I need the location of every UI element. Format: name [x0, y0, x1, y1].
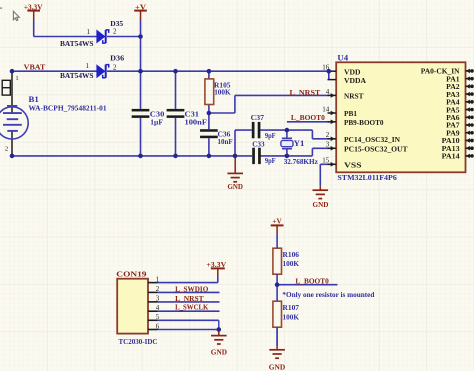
svg-text:D36: D36: [110, 54, 124, 63]
svg-text:PB1: PB1: [344, 109, 357, 118]
svg-text:STM32L011F4P6: STM32L011F4P6: [337, 173, 396, 182]
svg-text:1µF: 1µF: [150, 118, 163, 127]
svg-text:PB9-BOOT0: PB9-BOOT0: [344, 118, 384, 127]
svg-text:R106: R106: [283, 250, 300, 259]
svg-text:GND: GND: [269, 363, 286, 371]
svg-text:TC2030-IDC: TC2030-IDC: [119, 337, 158, 346]
svg-text:3: 3: [326, 141, 330, 149]
svg-text:10nF: 10nF: [218, 137, 233, 146]
svg-text:Y1: Y1: [294, 138, 305, 148]
svg-text:GND: GND: [211, 347, 227, 356]
svg-text:C33: C33: [252, 139, 264, 148]
svg-text:1: 1: [15, 75, 18, 82]
svg-text:9pF: 9pF: [265, 131, 276, 140]
svg-text:2: 2: [113, 63, 117, 71]
svg-text:NRST: NRST: [344, 92, 364, 101]
svg-text:CON19: CON19: [116, 270, 146, 279]
svg-text:C37: C37: [251, 113, 264, 122]
svg-text:D35: D35: [110, 19, 123, 28]
svg-text:2: 2: [326, 131, 330, 139]
svg-text:32.768KHz: 32.768KHz: [284, 157, 319, 166]
svg-text:L_BOOT0: L_BOOT0: [291, 113, 325, 122]
svg-text:100K: 100K: [283, 259, 300, 268]
svg-text:L_BOOT0: L_BOOT0: [295, 277, 328, 286]
svg-text:+3.3V: +3.3V: [206, 260, 226, 269]
svg-text:PC15-OSC32_OUT: PC15-OSC32_OUT: [344, 145, 408, 154]
svg-text:*Only one resistor is mounted: *Only one resistor is mounted: [282, 290, 375, 299]
svg-text:100K: 100K: [214, 88, 231, 97]
svg-text:15: 15: [322, 157, 330, 165]
svg-text:U4: U4: [337, 53, 348, 63]
svg-text:BAT54WS: BAT54WS: [60, 71, 94, 80]
svg-text:GND: GND: [313, 200, 329, 209]
svg-text:1: 1: [85, 62, 89, 70]
svg-text:2: 2: [113, 28, 117, 36]
svg-text:9pF: 9pF: [265, 156, 276, 165]
svg-text:L_NRST: L_NRST: [290, 88, 322, 97]
svg-text:+3.3V: +3.3V: [24, 2, 43, 11]
svg-text:R107: R107: [283, 303, 300, 312]
svg-text:+V: +V: [272, 217, 282, 226]
svg-text:100K: 100K: [283, 312, 300, 321]
svg-text:1: 1: [86, 28, 90, 36]
svg-text:L_SWDIO: L_SWDIO: [175, 285, 208, 294]
svg-text:B1: B1: [29, 94, 39, 104]
svg-text:4: 4: [326, 88, 330, 96]
svg-text:L_SWCLK: L_SWCLK: [175, 302, 208, 311]
svg-text:100nF: 100nF: [185, 118, 208, 127]
svg-text:PA14: PA14: [442, 152, 460, 161]
svg-text:+V: +V: [135, 3, 146, 12]
svg-text:VSS: VSS: [344, 161, 362, 170]
svg-text:PC14_OSC32_IN: PC14_OSC32_IN: [344, 135, 400, 144]
svg-text:2: 2: [5, 145, 8, 152]
svg-text:BAT54WS: BAT54WS: [60, 39, 94, 48]
svg-text:VDDA: VDDA: [344, 76, 366, 85]
svg-text:GND: GND: [227, 182, 243, 191]
svg-text:VBAT: VBAT: [24, 62, 46, 71]
svg-text:WA-BCPH_79548211-01: WA-BCPH_79548211-01: [29, 104, 107, 113]
